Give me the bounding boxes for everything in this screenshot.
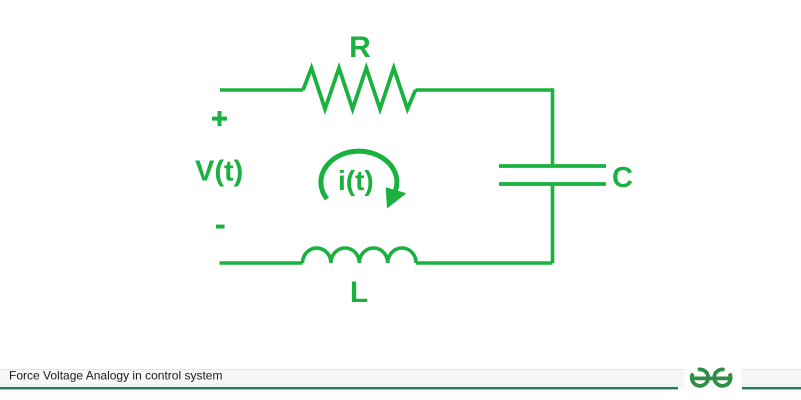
svg-text:L: L [350, 276, 368, 309]
current loop arrowhead [386, 187, 407, 208]
svg-text:R: R [349, 31, 371, 64]
svg-text:Force Voltage Analogy in contr: Force Voltage Analogy in control system [9, 369, 222, 383]
current loop arc [321, 151, 397, 199]
svg-text:V(t): V(t) [195, 156, 243, 188]
capacitor C bottom plate [499, 182, 606, 186]
footer white gap around logo [685, 362, 742, 392]
wire bottom-left stub [220, 261, 303, 265]
wire bottom-right [416, 261, 553, 265]
resistor R zigzag [303, 68, 416, 109]
svg-text:i(t): i(t) [338, 165, 374, 196]
wire top-left stub [220, 88, 303, 92]
capacitor C top plate [499, 164, 606, 168]
GfG logo [690, 369, 731, 385]
plus terminal [212, 111, 227, 126]
footer band [0, 369, 801, 387]
minus terminal [216, 225, 225, 229]
footer underline left [0, 387, 678, 389]
wire top-right [416, 88, 553, 92]
footer underline right [742, 387, 801, 389]
wire right vertical lower [551, 186, 555, 263]
svg-text:C: C [612, 162, 633, 194]
wire right vertical upper [551, 88, 555, 164]
inductor L coil [303, 248, 417, 263]
